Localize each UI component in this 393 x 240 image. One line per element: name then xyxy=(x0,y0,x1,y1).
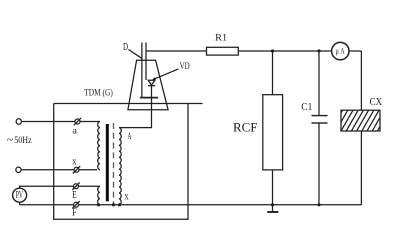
ground xyxy=(272,205,274,212)
secondary winding A-X xyxy=(119,128,121,205)
leader VD with arrow xyxy=(152,69,179,80)
wire a xyxy=(22,121,101,123)
source terminal 1 xyxy=(16,119,21,124)
wire top from meter to right corner xyxy=(349,50,361,52)
meter uA xyxy=(332,42,349,59)
tank top line xyxy=(54,103,203,105)
wire CX bottom to bottom rail xyxy=(360,131,362,205)
node junction bottom C1 xyxy=(317,203,320,206)
primary winding a-x xyxy=(98,122,100,170)
primary winding E-F xyxy=(98,186,100,205)
svg-text:50Hz: 50Hz xyxy=(14,135,32,145)
wire F from PV xyxy=(19,202,21,205)
diode VD xyxy=(148,80,155,97)
svg-text:CX: CX xyxy=(370,96,383,108)
leader D xyxy=(129,50,142,59)
svg-text:a: a xyxy=(72,127,77,137)
capacitor CX hatched block xyxy=(325,110,393,131)
transformer core bar xyxy=(106,124,109,201)
svg-text:E: E xyxy=(72,189,77,201)
svg-text:X: X xyxy=(124,192,129,201)
transformer tank box xyxy=(54,104,188,220)
wire RCF top branch xyxy=(272,51,274,95)
svg-text:D: D xyxy=(123,42,128,53)
wire right vertical to CX top xyxy=(360,51,362,110)
svg-text:VD: VD xyxy=(180,61,190,71)
svg-text:μ A: μ A xyxy=(336,46,345,55)
node junction bottom RCF xyxy=(271,203,274,206)
bushing lower electrode bar xyxy=(140,97,158,99)
source terminal 2 xyxy=(16,167,21,172)
resistor R1 xyxy=(207,47,239,55)
capacitor C1 xyxy=(312,115,328,117)
wire C1 top branch xyxy=(318,51,320,115)
svg-text:RCF: RCF xyxy=(233,120,258,134)
transformer shield dashed xyxy=(113,123,115,204)
resistor RCF xyxy=(263,95,283,170)
wire top from bushing to R1 xyxy=(146,50,207,52)
svg-text:C1: C1 xyxy=(301,101,312,113)
bushing conductor line left xyxy=(141,43,143,98)
svg-text:PV: PV xyxy=(16,190,24,201)
svg-text:R1: R1 xyxy=(215,33,227,43)
node junction top C1 xyxy=(317,49,320,52)
svg-text:A: A xyxy=(128,132,132,142)
wire A to bushing xyxy=(119,98,152,128)
terminal x xyxy=(73,166,80,173)
terminal F xyxy=(72,201,79,208)
wire E from PV xyxy=(20,186,100,188)
node F winding to rail xyxy=(97,203,100,206)
node shield to rail xyxy=(112,203,115,206)
wire top from R1 to meter xyxy=(238,50,331,52)
node junction top RCF xyxy=(271,49,274,52)
svg-text:~: ~ xyxy=(7,133,14,147)
terminal a xyxy=(74,118,81,125)
wire x xyxy=(21,169,97,171)
svg-text:x: x xyxy=(72,156,76,167)
wire C1 bottom branch xyxy=(318,123,320,205)
svg-text:TDM (G): TDM (G) xyxy=(84,88,113,98)
bushing conductor line right xyxy=(145,43,147,81)
svg-text:F: F xyxy=(72,206,77,218)
wire bottom rail xyxy=(20,204,362,206)
voltmeter PV xyxy=(13,188,27,202)
node X to rail xyxy=(118,203,121,206)
wire RCF bottom branch xyxy=(272,170,274,205)
terminal E xyxy=(72,183,79,190)
bushing D trapezoid xyxy=(128,60,168,110)
